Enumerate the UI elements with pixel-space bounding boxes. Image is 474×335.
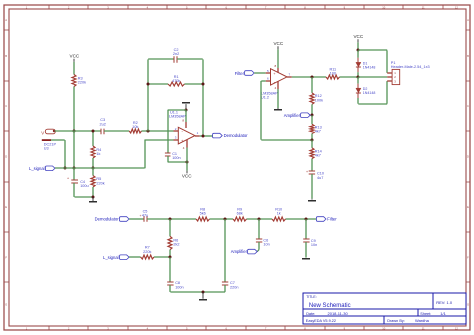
junction filter ground xyxy=(202,291,205,294)
svg-text:2k2: 2k2 xyxy=(173,243,179,247)
power flag VCC (U1 pin8b) xyxy=(273,41,283,68)
wire bypass bottom xyxy=(168,156,187,162)
power flag VCC (R3 pull-up) xyxy=(70,54,80,62)
op-amp U1.1 LM358AP xyxy=(169,110,195,143)
wire bypass top xyxy=(168,109,187,111)
junction pin4/bypass xyxy=(186,161,189,164)
power flag VCC (diodes) xyxy=(353,34,363,50)
wire VCC to header pin1 xyxy=(358,50,387,73)
wire VCC to D1 xyxy=(357,50,359,57)
junction U3 sleeve/L_signal xyxy=(64,167,67,170)
resistor R9 xyxy=(233,208,247,222)
ground (C9) xyxy=(302,258,310,260)
svg-text:LM358AP: LM358AP xyxy=(169,115,186,119)
resistor R12 xyxy=(310,77,323,115)
svg-text:U1.2: U1.2 xyxy=(261,96,269,100)
svg-text:220k: 220k xyxy=(96,181,104,185)
power flag VCC (U1 pin4) xyxy=(182,171,192,179)
resistor R13 xyxy=(310,115,322,140)
svg-text:4k7: 4k7 xyxy=(315,154,321,158)
wire bias riser xyxy=(145,140,174,169)
wire pin8 stub xyxy=(182,110,186,128)
wire D1 to mid node xyxy=(357,72,359,77)
wire R1 row right xyxy=(185,83,203,85)
svg-text:Sheet:: Sheet: xyxy=(420,312,431,316)
junction R4/R5 xyxy=(92,167,95,170)
wire mid to D2 xyxy=(357,77,359,84)
pin 3 stub xyxy=(174,135,179,140)
svg-text:220k: 220k xyxy=(78,80,86,84)
junction R6 top xyxy=(169,218,172,221)
net port Demodulator (output) xyxy=(213,133,249,138)
capacitor C9 (10n) xyxy=(303,219,317,258)
op-amp U1.2 LM358AP xyxy=(261,69,287,100)
svg-text:10n: 10n xyxy=(311,243,317,247)
net port Amplifier (filter tap) xyxy=(231,249,257,254)
resistor R5 xyxy=(91,168,105,197)
svg-text:47u: 47u xyxy=(142,213,148,217)
ground (input bias) xyxy=(89,197,97,203)
junction pin8/bypass xyxy=(185,109,188,112)
wire mic line down to L_signal line xyxy=(73,131,75,168)
pin 4 stub xyxy=(183,140,187,162)
junction R4 top xyxy=(92,130,95,133)
resistor R1 xyxy=(168,75,185,86)
svg-text:10: 10 xyxy=(382,326,385,330)
capacitor C5 (47u) xyxy=(140,210,149,222)
junction C6 top xyxy=(258,218,261,221)
svg-text:100k: 100k xyxy=(315,98,323,102)
svg-text:4u7: 4u7 xyxy=(317,176,323,180)
svg-text:Filter: Filter xyxy=(235,71,245,76)
net port L_signal (filter tap) xyxy=(103,255,129,260)
svg-text:D: D xyxy=(5,155,7,159)
capacitor C4 (100u) xyxy=(67,168,89,197)
capacitor C6 (10n) xyxy=(256,219,270,250)
pin 2 stub xyxy=(174,127,179,131)
junction R1 right xyxy=(202,83,205,86)
resistor R8 xyxy=(196,208,210,222)
svg-text:1/1: 1/1 xyxy=(440,311,446,316)
diode D1 1N4148 xyxy=(356,58,375,72)
wire R10 to Filter port xyxy=(286,218,317,220)
svg-text:470k: 470k xyxy=(172,79,180,83)
wire feedback right leg xyxy=(202,59,204,135)
capacitor C8 (100n) xyxy=(167,257,183,292)
svg-text:12: 12 xyxy=(455,326,458,330)
svg-text:B: B xyxy=(5,54,7,58)
svg-text:U3: U3 xyxy=(44,147,49,151)
wire R1 row left xyxy=(148,83,168,85)
svg-text:VCC: VCC xyxy=(273,41,283,46)
pin 6 stub xyxy=(266,77,271,81)
wire R7 to node xyxy=(154,256,170,258)
svg-text:1k: 1k xyxy=(277,212,281,216)
svg-text:VCC: VCC xyxy=(70,54,80,59)
wire R2 to op-amp pin2 xyxy=(142,130,174,132)
svg-text:2u2: 2u2 xyxy=(100,122,106,126)
resistor R10 xyxy=(272,208,286,222)
svg-text:C: C xyxy=(5,104,7,108)
pin 1 stub xyxy=(195,131,200,136)
svg-text:Amplifier: Amplifier xyxy=(284,113,301,118)
resistor R11 xyxy=(326,68,340,80)
wire R11 to diodes xyxy=(340,76,359,78)
wire U3 pin2 bend xyxy=(51,140,65,168)
wire L_signal to R7 xyxy=(129,256,141,258)
wire R4 bottom xyxy=(92,158,94,168)
junction output/feedback xyxy=(202,135,205,138)
wire C3 to R2 xyxy=(104,130,129,132)
resistor R3 xyxy=(72,75,86,87)
junction R1 left xyxy=(147,83,150,86)
svg-text:2n2: 2n2 xyxy=(173,52,179,56)
wire C6 to Amplifier port xyxy=(257,250,259,252)
svg-text:G: G xyxy=(5,302,7,306)
svg-text:L_signal: L_signal xyxy=(29,166,45,171)
junction R13/R14 xyxy=(311,139,314,142)
wire C5 to R8 xyxy=(147,218,196,220)
svg-text:68k: 68k xyxy=(237,212,243,216)
svg-text:B: B xyxy=(467,54,469,58)
wire feedback top right xyxy=(177,58,203,60)
junction VCC/diode xyxy=(357,49,360,52)
svg-text:Date:: Date: xyxy=(306,312,315,316)
svg-text:REV: 1.0: REV: 1.0 xyxy=(436,300,453,305)
resistor R7 xyxy=(141,246,154,259)
wire Demodulator to C5 xyxy=(129,218,144,220)
wire feedback stage2 xyxy=(261,81,312,140)
junction feedback/input xyxy=(147,130,150,133)
svg-text:VCC: VCC xyxy=(353,34,363,39)
resistor R6 xyxy=(168,219,180,257)
capacitor C1 (bypass) xyxy=(165,152,181,160)
wire C8/C7 ground link xyxy=(170,291,225,293)
svg-text:100u: 100u xyxy=(80,184,88,188)
net port Filter (filter output) xyxy=(316,217,337,222)
wire U3 pin1 to C3 xyxy=(55,130,102,132)
svg-text:11: 11 xyxy=(422,326,425,330)
diode D2 1N4148 xyxy=(356,84,375,98)
ground (C10) xyxy=(308,199,316,202)
svg-text:11: 11 xyxy=(422,5,425,9)
pin 7 stub xyxy=(287,73,292,77)
junction diode mid xyxy=(357,76,360,79)
capacitor C7 (220n) xyxy=(222,219,239,292)
title block xyxy=(303,293,466,324)
wire C4/R5 ground link xyxy=(75,196,93,198)
net port Demodulator (filter input) xyxy=(95,217,129,222)
junction R3/mic line xyxy=(73,130,76,133)
svg-text:Header-Male-2.54_1x3: Header-Male-2.54_1x3 xyxy=(391,65,430,69)
ground (filter) xyxy=(199,292,207,301)
svg-text:1k: 1k xyxy=(96,152,100,156)
svg-text:E: E xyxy=(467,205,469,209)
svg-text:VCC: VCC xyxy=(182,174,192,179)
svg-text:10k: 10k xyxy=(132,125,138,129)
svg-text:220n: 220n xyxy=(230,285,238,289)
svg-text:1N4148: 1N4148 xyxy=(363,91,376,95)
wire pin4 to ground xyxy=(277,89,279,108)
svg-text:New Schematic: New Schematic xyxy=(309,303,351,309)
capacitor C2 xyxy=(173,48,179,63)
svg-text:10: 10 xyxy=(382,5,385,9)
resistor R4 xyxy=(91,146,101,158)
pin 8 stub (stage2) xyxy=(275,64,278,73)
wire output stage2 xyxy=(292,76,326,78)
pin 5 stub xyxy=(266,69,271,73)
resistor R4 branch wire top xyxy=(92,131,94,146)
svg-text:G: G xyxy=(467,302,469,306)
junction C7 top xyxy=(224,218,227,221)
wire R8 to R9 xyxy=(210,218,234,220)
ground (U1 pin8 bar) xyxy=(182,102,190,110)
net port L_signal (input) xyxy=(29,166,55,171)
wire bypass left xyxy=(167,110,169,153)
capacitor C10 (4u7) xyxy=(306,169,324,199)
capacitor C3 xyxy=(100,118,106,134)
wire L_signal line xyxy=(55,167,145,169)
svg-text:1N4148: 1N4148 xyxy=(363,65,376,69)
svg-text:10n: 10n xyxy=(263,243,269,247)
svg-text:L_signal: L_signal xyxy=(103,255,119,260)
svg-text:2018-11-30: 2018-11-30 xyxy=(328,311,349,316)
svg-text:Filter: Filter xyxy=(327,217,337,222)
svg-text:Amplifier: Amplifier xyxy=(231,249,248,254)
junction C4 tap xyxy=(73,167,76,170)
wire VCC to R3 xyxy=(73,62,75,75)
svg-text:TITLE:: TITLE: xyxy=(306,295,317,299)
svg-text:Drawn By:: Drawn By: xyxy=(387,319,405,323)
resistor R2 xyxy=(129,121,141,133)
wire pin4 to VCC xyxy=(186,162,188,170)
wire D2 to header pin3 xyxy=(358,81,387,104)
junction ground link xyxy=(92,196,95,199)
svg-text:A: A xyxy=(5,18,7,22)
wire feedback top left xyxy=(148,58,174,60)
svg-text:5k6: 5k6 xyxy=(200,212,206,216)
resistor R14 xyxy=(310,140,322,171)
svg-text:EasyEDA V5.9.22: EasyEDA V5.9.22 xyxy=(306,319,336,323)
svg-text:V: V xyxy=(41,130,44,135)
junction C9 top xyxy=(305,218,308,221)
junction output/R12 xyxy=(311,76,314,79)
ground (U1 pin4 bar) xyxy=(274,108,282,111)
svg-text:4k7: 4k7 xyxy=(315,130,321,134)
header P1 Header-Male-2.54_1x3 xyxy=(391,61,430,85)
wire Filter to pin5 xyxy=(254,72,266,74)
svg-text:E: E xyxy=(5,205,7,209)
svg-text:Demodulator: Demodulator xyxy=(95,217,120,222)
net port Filter (stage2 input) xyxy=(235,71,255,76)
svg-text:100: 100 xyxy=(330,72,336,76)
svg-text:C: C xyxy=(467,104,469,108)
svg-text:100n: 100n xyxy=(172,156,180,160)
connector U3 DC21P xyxy=(41,129,56,151)
wire feedback left leg xyxy=(147,59,149,131)
header P1 pins xyxy=(387,73,392,81)
svg-text:220k: 220k xyxy=(143,250,151,254)
svg-text:100n: 100n xyxy=(175,285,183,289)
svg-text:A: A xyxy=(467,18,469,22)
wire R9 to R10 xyxy=(247,218,273,220)
svg-text:Demodulator: Demodulator xyxy=(224,133,249,138)
svg-text:D: D xyxy=(467,155,469,159)
wire output xyxy=(200,135,213,137)
wire R3 to mic line xyxy=(73,87,75,132)
pin 4 stub (stage2) xyxy=(275,81,278,90)
junction R12/R13 xyxy=(311,114,314,117)
svg-text:12: 12 xyxy=(455,5,458,9)
svg-text:Wardha: Wardha xyxy=(415,318,430,323)
net port Amplifier (stage2 tap) xyxy=(284,113,310,118)
junction R6/R7/C8 xyxy=(169,256,172,259)
wire mid to header pin2 xyxy=(358,76,387,78)
